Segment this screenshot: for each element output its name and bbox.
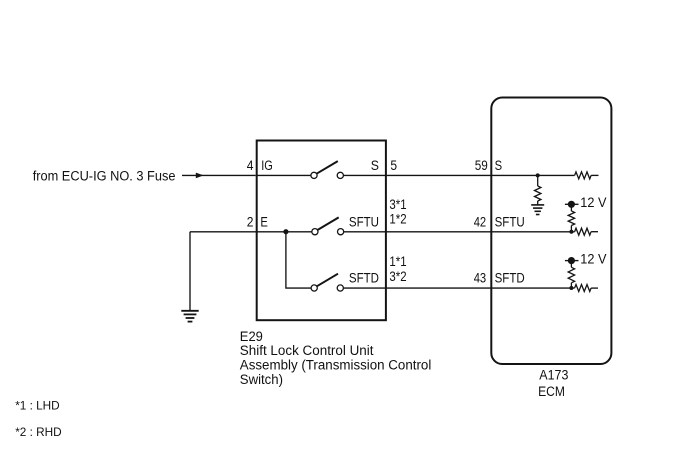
svg-text:2: 2 — [247, 214, 254, 229]
connector E29 box — [257, 141, 386, 321]
svg-text:Shift Lock Control Unit: Shift Lock Control Unit — [240, 343, 374, 358]
resistor R4 (series on SFTU row) — [575, 228, 592, 235]
svg-text:S: S — [495, 158, 503, 173]
wire: SFTD row from switch to ECM pin 43 — [343, 287, 491, 289]
wire: S row from switch to ECM pin 59 — [343, 174, 491, 176]
svg-text:12 V: 12 V — [580, 252, 606, 267]
svg-text:SFTU: SFTU — [495, 214, 525, 229]
switch SW2 contact circles — [312, 229, 318, 235]
12 V supply node (SFTU) — [565, 203, 579, 205]
wire: stub after R6 — [591, 287, 598, 289]
svg-text:42: 42 — [474, 214, 487, 229]
wire: SFTU row from switch to ECM pin 42 — [344, 231, 492, 233]
wire: stub after R4 — [591, 231, 598, 233]
switch SW3 (SFTD) lever — [317, 274, 338, 287]
wire: SFTD row inside ECM — [491, 287, 574, 289]
ground symbol (chassis) — [181, 311, 198, 322]
svg-text:IG: IG — [261, 158, 273, 173]
svg-text:from ECU-IG NO. 3 Fuse: from ECU-IG NO. 3 Fuse — [33, 168, 176, 183]
resistor R5 (pullup to 12 V, SFTD) — [568, 261, 574, 288]
svg-text:3*1: 3*1 — [389, 197, 406, 212]
svg-text:A173: A173 — [539, 368, 568, 383]
svg-text:59: 59 — [475, 158, 488, 173]
svg-text:12 V: 12 V — [580, 195, 606, 210]
wire: S row inside ECM — [491, 174, 574, 176]
switch SW3 contact circles — [311, 285, 317, 291]
svg-text:1*2: 1*2 — [389, 212, 406, 227]
resistor R2 (pulldown on S row) — [535, 175, 541, 205]
wire: ground riser vertical — [189, 232, 191, 311]
wire: SFTU row inside ECM — [491, 231, 574, 233]
arrowhead on fuse wire — [196, 173, 204, 179]
svg-text:SFTD: SFTD — [349, 271, 379, 286]
switch SW1 (IG-S) lever — [317, 161, 338, 174]
ground (internal, S pulldown) — [531, 205, 544, 215]
junction node on S row — [536, 173, 540, 177]
wire: IG row inside box, left of switch — [257, 174, 311, 176]
junction dot on E row — [283, 229, 288, 234]
resistor R3 (pullup to 12 V, SFTU) — [568, 204, 574, 231]
junction node on SFTU row — [569, 230, 573, 234]
svg-text:E: E — [260, 214, 268, 229]
switch SW2 (E-SFTU) lever — [318, 217, 339, 230]
svg-text:*2 : RHD: *2 : RHD — [15, 425, 62, 439]
switch SW1 contact circles — [311, 172, 317, 178]
svg-text:SFTU: SFTU — [349, 214, 379, 229]
wire: fuse feed to E29 pin 4 — [182, 174, 256, 176]
resistor R1 (series on S row) — [575, 172, 592, 179]
svg-text:*1 : LHD: *1 : LHD — [15, 398, 60, 412]
svg-text:Assembly (Transmission Control: Assembly (Transmission Control — [240, 358, 431, 373]
wire: E junction down to SFTD row — [286, 232, 311, 288]
svg-text:5: 5 — [390, 158, 397, 173]
12 V supply node (SFTD) — [565, 260, 579, 262]
svg-text:Switch): Switch) — [240, 372, 283, 387]
svg-text:1*1: 1*1 — [389, 254, 406, 269]
wire: E row from ground riser into box to switch — [190, 231, 312, 233]
svg-text:4: 4 — [247, 158, 254, 173]
svg-text:43: 43 — [474, 271, 487, 286]
ECM A173 box — [491, 98, 611, 365]
svg-text:SFTD: SFTD — [495, 271, 525, 286]
junction node on SFTD row — [569, 286, 573, 290]
svg-text:S: S — [371, 158, 379, 173]
svg-text:3*2: 3*2 — [389, 269, 406, 284]
svg-text:ECM: ECM — [538, 384, 565, 399]
svg-text:E29: E29 — [240, 329, 263, 344]
resistor R6 (series on SFTD row) — [575, 285, 592, 292]
wire: stub after R1 — [591, 174, 598, 176]
